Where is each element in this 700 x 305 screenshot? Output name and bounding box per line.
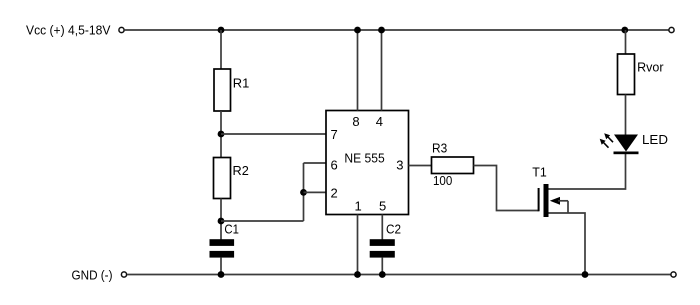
resistor R2 <box>214 158 249 199</box>
svg-text:4: 4 <box>376 114 383 129</box>
wire C2 to GND <box>381 257 383 274</box>
diode LED <box>614 132 669 154</box>
wire to pin 6 <box>304 162 327 164</box>
svg-text:R2: R2 <box>233 163 249 178</box>
wire node B to trigger column <box>221 220 304 222</box>
svg-text:100: 100 <box>433 173 452 188</box>
capacitor C2 <box>370 222 401 258</box>
transistor T1 body arrow <box>550 197 568 213</box>
wire to pin 2 <box>304 191 327 193</box>
svg-text:GND (-): GND (-) <box>72 268 113 283</box>
wire R3 to gate <box>474 166 539 211</box>
wire drain to LED <box>549 154 626 189</box>
wire Vcc to Rvor <box>625 30 627 54</box>
wire Rvor to LED <box>625 95 627 137</box>
wire pin 1 to GND <box>357 215 359 275</box>
svg-text:8: 8 <box>352 114 359 129</box>
resistor Rvor <box>618 54 665 95</box>
op-amp U1 NE555 body <box>326 111 409 215</box>
wire C1 to GND <box>220 257 222 274</box>
node junction pin4 Vcc <box>378 27 385 34</box>
terminal Vcc left <box>119 27 124 32</box>
terminal top right <box>669 27 674 32</box>
wire pin 4 to Vcc <box>381 30 383 111</box>
wire pin 3 to R3 <box>409 165 432 167</box>
wire top rail <box>125 29 669 31</box>
svg-text:5: 5 <box>379 199 386 214</box>
node junction pin1 GND <box>354 271 361 278</box>
svg-text:R3: R3 <box>432 141 447 156</box>
svg-text:C2: C2 <box>386 222 401 237</box>
LED light arrow 1 <box>604 133 613 142</box>
node A junction R1-R2 pin7 <box>218 131 225 138</box>
transistor T1 gate line <box>538 188 540 211</box>
svg-text:2: 2 <box>331 186 338 201</box>
wire pin 8 to Vcc <box>357 30 359 111</box>
capacitor C1 <box>210 222 239 258</box>
svg-text:LED: LED <box>642 132 668 147</box>
wire R1 to R2 <box>220 111 222 158</box>
wire node A to pin 7 <box>221 133 326 135</box>
node junction C1 GND <box>218 271 225 278</box>
resistor R1 <box>214 69 249 111</box>
wire pin 5 to C2 <box>381 215 383 240</box>
node junction top rail R1 <box>218 27 225 34</box>
wire trigger column vertical <box>303 163 305 221</box>
resistor R3 <box>432 141 474 189</box>
wire bottom rail <box>127 274 671 276</box>
node junction C2 GND <box>379 271 386 278</box>
svg-text:R1: R1 <box>233 75 250 90</box>
node junction pin2 tap <box>300 189 307 196</box>
node junction Rvor Vcc <box>621 27 628 34</box>
svg-text:NE 555: NE 555 <box>344 150 384 165</box>
svg-text:1: 1 <box>355 199 362 214</box>
svg-text:Rvor: Rvor <box>637 60 664 75</box>
node junction pin8 Vcc <box>354 27 361 34</box>
transistor T1 channel bar <box>544 184 549 217</box>
terminal GND left <box>121 272 126 277</box>
svg-text:3: 3 <box>396 158 403 173</box>
svg-text:T1: T1 <box>532 165 547 180</box>
terminal bottom right <box>671 272 676 277</box>
wire source to GND <box>549 213 586 275</box>
wire Vcc to R1 <box>220 30 222 69</box>
node junction source GND <box>582 271 589 278</box>
transistor Q1 T1 <box>532 165 547 180</box>
wire R2 to C1 <box>220 199 222 240</box>
LED light arrow 2 <box>600 139 609 148</box>
svg-text:6: 6 <box>331 158 338 173</box>
node B junction R2-C1 <box>218 218 225 225</box>
svg-text:7: 7 <box>331 127 338 142</box>
svg-text:C1: C1 <box>224 222 239 237</box>
svg-text:Vcc (+) 4,5-18V: Vcc (+) 4,5-18V <box>26 23 111 38</box>
